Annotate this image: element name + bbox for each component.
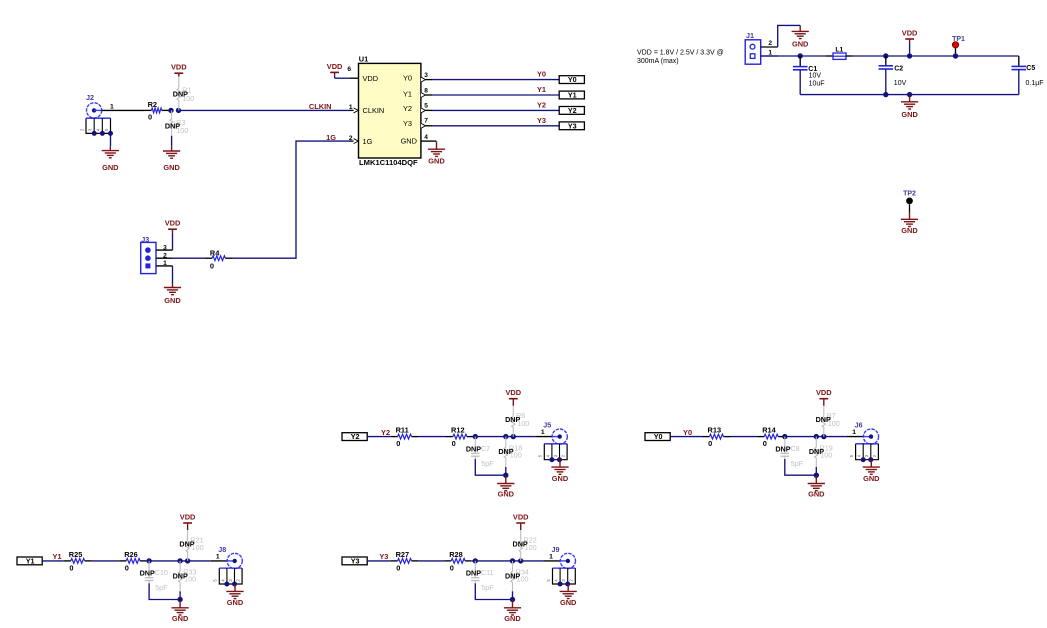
wire J1 pin2 to GND: [778, 25, 801, 47]
ground (J2): [102, 146, 119, 172]
node Y0 pull-up tap: [821, 434, 826, 439]
svg-text:DNP: DNP: [498, 447, 513, 456]
svg-text:Y3: Y3: [403, 119, 412, 128]
svg-text:1G: 1G: [363, 137, 373, 146]
power VDD (R21): [180, 512, 196, 530]
svg-text:DNP: DNP: [775, 444, 790, 453]
svg-text:VDD: VDD: [180, 512, 196, 521]
svg-text:1: 1: [216, 554, 220, 561]
svg-text:CLKIN: CLKIN: [309, 102, 332, 111]
wire R19 to GND node: [815, 467, 817, 475]
svg-text:1: 1: [549, 554, 553, 561]
ground (Y3 termination): [504, 600, 521, 623]
capacitor C8 DNP 5pF: [775, 437, 803, 468]
power VDD (R7): [816, 388, 832, 406]
svg-text:1: 1: [110, 104, 114, 111]
svg-text:C11: C11: [481, 568, 494, 577]
node Y1 shunt tap: [177, 558, 182, 563]
node CLKIN junction left: [168, 108, 173, 113]
svg-text:0: 0: [763, 439, 767, 448]
svg-text:VDD = 1.8V / 2.5V / 3.3V @: VDD = 1.8V / 2.5V / 3.3V @: [637, 50, 724, 57]
svg-text:DNP: DNP: [173, 572, 188, 581]
wire J3 pin3 to VDD: [172, 233, 174, 251]
svg-text:Y3: Y3: [379, 552, 388, 561]
svg-text:Y2: Y2: [537, 101, 546, 110]
wire R33 to GND node: [179, 591, 181, 599]
svg-text:8: 8: [424, 88, 428, 95]
node Y0 shunt tap: [814, 434, 819, 439]
svg-text:Y0: Y0: [403, 74, 412, 83]
node Y2 termination GND: [503, 473, 508, 478]
ground (Y1 termination): [172, 600, 189, 623]
ground (J8): [226, 584, 243, 607]
svg-text:GND: GND: [227, 598, 244, 607]
node CLKIN junction right: [176, 108, 181, 113]
wire VDD to U1 pin6: [335, 76, 359, 78]
wire Y0 row: [670, 436, 863, 438]
svg-text:GND: GND: [901, 110, 918, 119]
capacitor C5 0.1uF: [1012, 56, 1044, 95]
node VDD stub: [907, 53, 912, 58]
svg-text:GND: GND: [901, 226, 918, 235]
node Y1 pull-up tap: [185, 558, 190, 563]
svg-text:3: 3: [163, 244, 167, 251]
resistor R12 0: [451, 426, 467, 449]
svg-text:DNP: DNP: [179, 539, 194, 548]
resistor R14 0: [762, 426, 778, 449]
power VDD (R22): [513, 512, 529, 530]
connector J2 (SMA input): [86, 93, 114, 118]
svg-text:1: 1: [852, 429, 856, 436]
svg-text:U1: U1: [359, 54, 368, 63]
svg-text:GND: GND: [560, 598, 577, 607]
svg-text:4: 4: [424, 134, 428, 141]
svg-text:3: 3: [424, 72, 428, 79]
wire U1 Y3 to off-page: [426, 125, 560, 127]
resistor R6 DNP 100 (pull-up): [505, 406, 529, 437]
svg-text:GND: GND: [808, 490, 825, 499]
svg-text:2: 2: [163, 253, 167, 260]
svg-text:Y3: Y3: [568, 121, 577, 130]
svg-text:5pF: 5pF: [791, 459, 804, 468]
power VDD (J3 pin3): [165, 219, 181, 233]
svg-text:DNP: DNP: [809, 447, 824, 456]
svg-text:0: 0: [396, 564, 400, 573]
svg-text:GND: GND: [792, 40, 809, 49]
node Y3 shunt tap: [510, 558, 515, 563]
svg-text:Y2: Y2: [568, 106, 577, 115]
wire J2 shield to GND: [110, 133, 112, 146]
wire Y1 row: [42, 560, 227, 562]
ground (Y2 termination): [497, 476, 514, 499]
svg-text:VDD: VDD: [816, 388, 832, 397]
wire R4 to U1 1G: [225, 141, 353, 258]
svg-text:DNP: DNP: [173, 89, 188, 98]
ground (J9): [560, 584, 577, 607]
wire U1 Y2 to off-page: [426, 109, 560, 111]
capacitor C11 DNP 5pF: [466, 561, 494, 592]
node Y0 cap tap: [782, 434, 787, 439]
node C2 bottom: [883, 92, 888, 97]
resistor R4: [210, 248, 225, 270]
resistor R11 0: [396, 426, 412, 449]
off-page connector Y1: [559, 91, 584, 100]
svg-text:VDD: VDD: [327, 62, 343, 71]
note VDD supply text: [637, 50, 724, 66]
svg-text:C2: C2: [894, 65, 903, 72]
capacitor C7 DNP 5pF: [466, 437, 494, 468]
svg-text:VDD: VDD: [171, 63, 187, 72]
off-page connector Y2: [559, 106, 584, 115]
svg-text:DNP: DNP: [513, 539, 528, 548]
svg-text:VDD: VDD: [513, 512, 529, 521]
svg-text:LMK1C1104DQF: LMK1C1104DQF: [359, 158, 418, 167]
wire U1 Y0 to off-page: [426, 79, 560, 81]
connector J6 (SMA output): [852, 421, 878, 445]
J8 ground pin block: [213, 568, 242, 586]
svg-text:5pF: 5pF: [481, 459, 494, 468]
svg-text:2: 2: [768, 40, 772, 47]
connector J1 (power input): [745, 31, 778, 64]
power VDD (R1 pull-up): [171, 63, 187, 77]
svg-text:Y1: Y1: [568, 91, 577, 100]
svg-text:GND: GND: [552, 474, 569, 483]
svg-text:1: 1: [163, 260, 167, 267]
svg-text:J1: J1: [746, 31, 754, 40]
wire C10 to GND node: [149, 583, 180, 599]
J6 ground pin block: [849, 444, 878, 462]
U1 output chevron Y0: [421, 77, 426, 82]
resistor R7 DNP 100 (pull-up): [816, 406, 840, 437]
ground (J5): [551, 460, 568, 483]
ground (TP2): [901, 212, 918, 235]
U1 GND pin lead: [421, 140, 436, 142]
svg-text:0: 0: [452, 439, 456, 448]
connector J8 (SMA output): [216, 545, 242, 569]
U1 output chevron Y1: [421, 92, 426, 97]
node C1 top: [798, 53, 803, 58]
svg-text:5pF: 5pF: [481, 583, 494, 592]
svg-text:Y1: Y1: [26, 557, 35, 566]
resistor R3 DNP 100: [165, 110, 188, 135]
svg-text:GND: GND: [401, 137, 417, 146]
connector J9 (SMA output): [549, 545, 575, 569]
svg-text:0: 0: [708, 439, 712, 448]
resistor R27 0: [396, 550, 412, 573]
ground (power rail): [901, 95, 918, 119]
capacitor C2 10V: [879, 56, 907, 95]
resistor R18 DNP 100 (shunt): [498, 437, 522, 467]
resistor R26 0: [124, 550, 140, 573]
svg-text:R4: R4: [210, 248, 220, 257]
svg-text:7: 7: [424, 118, 428, 125]
svg-text:GND: GND: [863, 474, 880, 483]
wire node to U1 CLKIN: [179, 109, 354, 111]
wire bottom rail: [800, 94, 1019, 96]
svg-text:DNP: DNP: [505, 572, 520, 581]
svg-text:VDD: VDD: [165, 219, 181, 228]
svg-text:VDD: VDD: [902, 28, 918, 37]
svg-text:J2: J2: [86, 93, 94, 102]
svg-text:1: 1: [541, 429, 545, 436]
svg-text:GND: GND: [102, 163, 119, 172]
J5 ground pin block: [538, 444, 567, 462]
wire Y2 row: [367, 436, 552, 438]
wire C11 to GND node: [475, 583, 512, 599]
wire U1 Y1 to off-page: [426, 94, 560, 96]
svg-text:GND: GND: [163, 163, 180, 172]
wire J1 pin1 to C1 node (VDD rail): [761, 55, 826, 57]
test point TP2: [903, 190, 916, 211]
svg-text:C7: C7: [481, 444, 490, 453]
svg-text:0: 0: [125, 564, 129, 573]
wire L1 to C5 (VDD rail): [853, 55, 1019, 57]
U1 output chevron Y2: [421, 108, 426, 113]
resistor R19 DNP 100 (shunt): [809, 437, 833, 467]
svg-text:GND: GND: [428, 157, 445, 166]
off-page connector Y2: [342, 432, 367, 441]
svg-text:0: 0: [69, 564, 73, 573]
wire C8 to GND node: [785, 459, 817, 475]
svg-text:Y2: Y2: [381, 428, 390, 437]
resistor R21 DNP 100 (pull-up): [179, 530, 203, 561]
ground (R3): [163, 147, 180, 172]
resistor R34 DNP 100 (shunt): [505, 561, 529, 591]
connector J3 (3-pin header): [141, 235, 173, 274]
resistor R1 DNP 100: [173, 77, 195, 111]
node Y2 cap tap: [473, 434, 478, 439]
svg-text:CLKIN: CLKIN: [363, 106, 385, 115]
resistor R22 DNP 100 (pull-up): [513, 530, 537, 561]
node C2 top: [883, 53, 888, 58]
U1 1G input chevron: [354, 139, 359, 144]
resistor R2: [148, 100, 162, 122]
U1 CLKIN input chevron: [354, 108, 359, 113]
op-amp U1 LMK1C1104DQF buffer: [359, 54, 421, 167]
test point TP1: [952, 36, 965, 53]
svg-text:Y0: Y0: [654, 432, 663, 441]
svg-text:GND: GND: [164, 296, 181, 305]
svg-text:Y3: Y3: [537, 116, 546, 125]
wire R34 to GND node: [512, 591, 514, 599]
svg-text:GND: GND: [504, 614, 521, 623]
power VDD (rail): [902, 28, 918, 53]
node Y3 termination GND: [510, 597, 515, 602]
svg-text:Y3: Y3: [351, 557, 360, 566]
J2 ground pin block: [79, 118, 113, 136]
resistor R28 0: [449, 550, 465, 573]
node Y2 shunt tap: [503, 434, 508, 439]
off-page connector Y1: [17, 557, 42, 566]
wire C7 to GND node: [475, 459, 506, 475]
node Y1 termination GND: [177, 597, 182, 602]
svg-text:5pF: 5pF: [155, 583, 168, 592]
svg-text:300mA (max): 300mA (max): [637, 58, 679, 65]
connector J5 (SMA output): [541, 421, 567, 445]
svg-text:5: 5: [424, 103, 428, 110]
off-page connector Y0: [559, 75, 584, 84]
ground (J1 pin2): [792, 25, 809, 48]
svg-text:C10: C10: [155, 568, 168, 577]
resistor R33 DNP 100 (shunt): [173, 561, 197, 591]
svg-text:C5: C5: [1026, 65, 1035, 72]
svg-text:VDD: VDD: [363, 74, 379, 83]
svg-text:Y0: Y0: [568, 75, 577, 84]
power VDD (U1 pin 6): [327, 62, 343, 76]
node Y3 cap tap: [473, 558, 478, 563]
svg-text:2: 2: [349, 135, 353, 142]
svg-text:10V: 10V: [809, 73, 822, 80]
svg-text:Y2: Y2: [403, 104, 412, 113]
svg-text:6: 6: [347, 66, 351, 73]
svg-text:0: 0: [396, 439, 400, 448]
node Y1 cap tap: [146, 558, 151, 563]
capacitor C1 10uF 10V: [793, 56, 825, 95]
svg-text:10uF: 10uF: [809, 81, 825, 88]
svg-text:0.1µF: 0.1µF: [1026, 80, 1044, 87]
ground (Y0 termination): [808, 476, 825, 499]
wire R2 to node: [162, 109, 171, 111]
svg-text:DNP: DNP: [466, 569, 481, 578]
J9 ground pin block: [546, 568, 575, 586]
svg-text:VDD: VDD: [505, 388, 521, 397]
svg-text:GND: GND: [498, 490, 515, 499]
svg-text:DNP: DNP: [466, 444, 481, 453]
svg-text:DNP: DNP: [505, 415, 520, 424]
svg-text:1G: 1G: [326, 133, 336, 142]
node Y3 pull-up tap: [518, 558, 523, 563]
ground (U1 pin 4): [428, 141, 445, 165]
capacitor C10 DNP 5pF: [140, 561, 168, 592]
off-page connector Y3: [559, 121, 584, 130]
power VDD (R6): [505, 388, 521, 406]
ground (J3): [164, 284, 181, 306]
U1 output chevron Y3: [421, 123, 426, 128]
resistor R25 0: [69, 550, 85, 573]
svg-text:0: 0: [450, 564, 454, 573]
svg-text:TP2: TP2: [903, 190, 916, 197]
svg-text:Y1: Y1: [537, 85, 546, 94]
wire J3 pin2 to R4: [173, 257, 206, 259]
ground (J6): [863, 460, 880, 483]
svg-text:10V: 10V: [894, 80, 907, 87]
node Y2 pull-up tap: [511, 434, 516, 439]
svg-text:DNP: DNP: [165, 122, 180, 131]
svg-text:Y0: Y0: [537, 70, 546, 79]
svg-text:Y1: Y1: [53, 552, 62, 561]
svg-text:DNP: DNP: [816, 415, 831, 424]
wire J3 pin1 to GND: [172, 266, 174, 284]
svg-text:GND: GND: [172, 614, 189, 623]
off-page connector Y3: [342, 557, 367, 566]
svg-text:0: 0: [148, 113, 152, 122]
resistor R13 0: [708, 426, 724, 449]
wire J2 pin1 to R2: [102, 109, 152, 111]
svg-text:Y0: Y0: [683, 428, 692, 437]
off-page connector Y0: [645, 432, 670, 441]
node GND rail: [907, 92, 912, 97]
svg-text:DNP: DNP: [140, 569, 155, 578]
node Y0 termination GND: [814, 473, 819, 478]
svg-text:1: 1: [349, 104, 353, 111]
svg-text:0: 0: [210, 262, 214, 271]
wire Y3 row: [367, 560, 560, 562]
wire R18 to GND node: [505, 467, 507, 475]
wire R3 to GND: [171, 136, 173, 147]
svg-text:Y2: Y2: [351, 432, 360, 441]
inductor L1 (ferrite bead): [826, 47, 853, 60]
svg-text:C8: C8: [790, 444, 799, 453]
node TP1: [953, 53, 958, 58]
svg-text:Y1: Y1: [403, 89, 412, 98]
